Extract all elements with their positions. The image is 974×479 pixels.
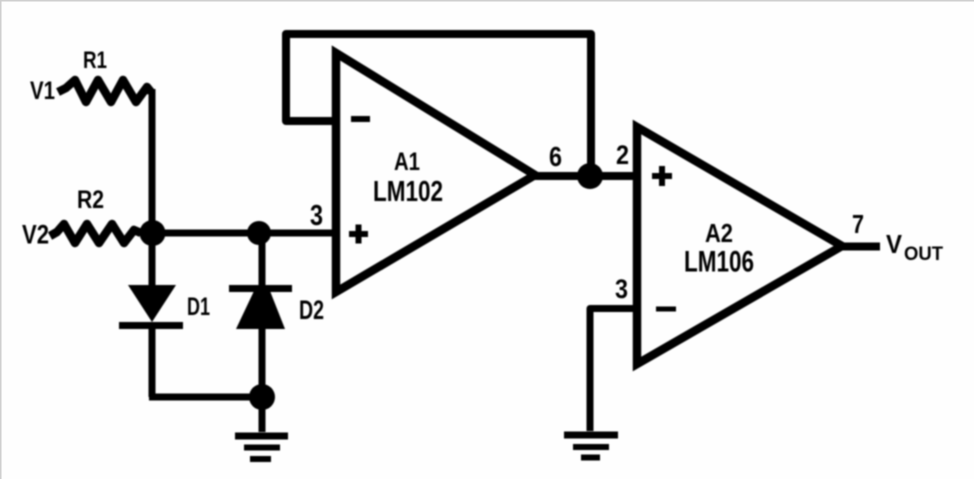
svg-text:LM106: LM106 (684, 246, 754, 279)
svg-text:LM102: LM102 (373, 176, 443, 208)
svg-text:D2: D2 (299, 295, 324, 325)
svg-text:A1: A1 (394, 148, 420, 176)
svg-text:3: 3 (615, 274, 628, 304)
svg-text:R2: R2 (77, 186, 104, 214)
svg-text:6: 6 (549, 141, 562, 172)
svg-text:7: 7 (852, 209, 864, 239)
svg-text:2: 2 (616, 140, 629, 170)
svg-text:OUT: OUT (904, 244, 943, 265)
svg-text:A2: A2 (705, 218, 733, 248)
svg-text:V2: V2 (22, 220, 49, 250)
svg-text:D1: D1 (187, 293, 210, 321)
svg-text:V: V (886, 229, 903, 259)
svg-text:V1: V1 (30, 77, 55, 105)
svg-text:R1: R1 (83, 47, 107, 74)
svg-text:3: 3 (310, 200, 323, 232)
